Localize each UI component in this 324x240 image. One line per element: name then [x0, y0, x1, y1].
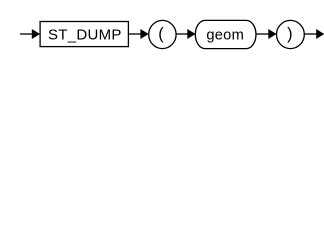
arrowhead into box [32, 29, 40, 39]
svg-text:): ) [287, 25, 292, 43]
oval lparen [149, 20, 176, 48]
oval rparen [277, 20, 305, 48]
box ST_DUMP [40, 22, 128, 47]
svg-text:ST_DUMP: ST_DUMP [48, 26, 122, 43]
wire lparen to geom [176, 33, 188, 35]
svg-text:geom: geom [206, 28, 244, 44]
svg-text:(: ( [158, 25, 164, 43]
oval geom [195, 20, 256, 48]
wire start segment [20, 33, 33, 35]
arrowhead into geom [187, 29, 195, 39]
wire rparen to end [304, 33, 317, 35]
arrowhead into lparen [140, 29, 148, 39]
railroad syntax diagram: ST_DUMP ( geom ) [0, 0, 324, 58]
wire geom to rparen [256, 33, 269, 35]
arrowhead terminal [316, 29, 324, 39]
arrowhead into rparen [268, 29, 276, 39]
wire box to lparen [128, 33, 141, 35]
